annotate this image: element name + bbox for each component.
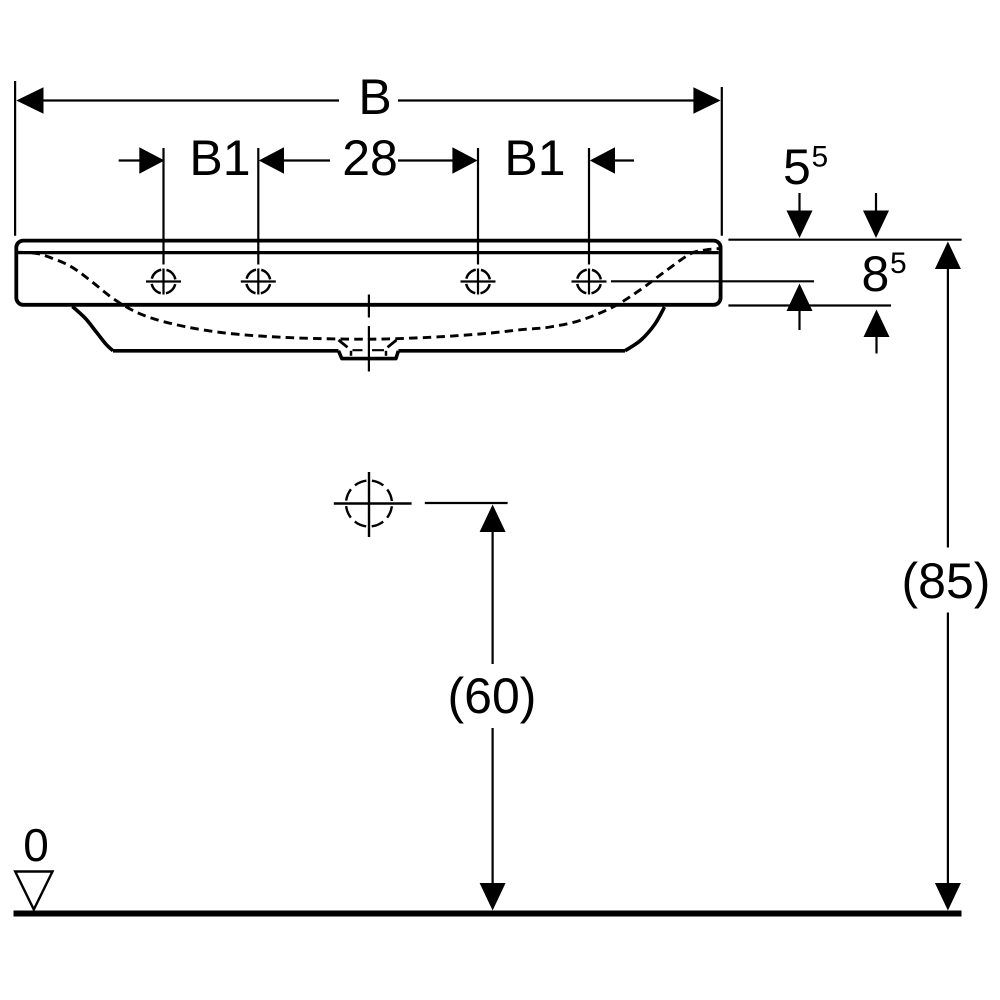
dimension (85) line upper — [947, 266, 949, 548]
faucet hole 1 — [146, 269, 181, 295]
dimension 28 arrow right — [398, 159, 453, 161]
dimension 28 arrow left — [259, 147, 284, 173]
washbasin slab outline — [16, 241, 720, 305]
drain recess — [339, 351, 399, 359]
svg-text:(60): (60) — [448, 668, 537, 724]
bowl underside bottom left segment — [113, 349, 339, 353]
bottom reference line right — [728, 304, 891, 306]
svg-text:B1: B1 — [189, 130, 250, 186]
dimension B arrow right — [693, 87, 720, 113]
dimension B1 right arrow — [590, 147, 615, 173]
dimension (60) line lower — [492, 728, 494, 884]
floor line — [14, 911, 962, 917]
dimension 8.5 down arrow — [875, 193, 877, 211]
washbasin front edge inner line — [18, 251, 719, 254]
bowl underside left curve — [72, 307, 113, 351]
svg-text:5: 5 — [783, 139, 811, 195]
drain centerline — [368, 295, 370, 372]
svg-text:28: 28 — [342, 130, 398, 186]
svg-text:B1: B1 — [504, 130, 565, 186]
inner bowl dashed profile — [18, 249, 719, 340]
dimension (60) line upper — [492, 532, 494, 664]
bowl underside right curve — [625, 307, 665, 351]
faucet hole 3 — [461, 269, 496, 295]
dimension B arrow left — [16, 87, 43, 113]
dimension 5.5 down arrow — [798, 193, 800, 211]
dimension 5.5 up arrow — [787, 284, 813, 312]
extension line hole 1 — [162, 148, 164, 265]
extension line hole 2 — [257, 148, 259, 265]
trap connection crosshair — [334, 472, 412, 537]
dimension B line right segment — [398, 99, 696, 101]
extension line hole 3 — [477, 148, 479, 265]
extension line hole 4 — [588, 148, 590, 265]
dimension (60) up arrow — [480, 505, 506, 533]
top reference line right — [728, 239, 961, 241]
drain dashed taper right — [388, 340, 397, 347]
dimension (85) down arrow — [935, 883, 961, 911]
dimension B line left segment — [40, 99, 339, 101]
svg-text:0: 0 — [23, 819, 49, 871]
bowl underside bottom right segment — [398, 349, 625, 353]
svg-text:(85): (85) — [902, 553, 991, 609]
datum triangle — [15, 872, 52, 910]
dimension (60) reference line — [425, 502, 508, 504]
svg-text:B: B — [358, 69, 391, 125]
svg-text:5: 5 — [890, 247, 907, 280]
drain hole tick right — [385, 351, 388, 356]
dimension B extension line left — [14, 81, 16, 236]
dimension B1 left arrow — [119, 159, 140, 161]
dimension B extension line right — [721, 87, 723, 236]
drain dashed seat line — [353, 349, 385, 351]
dimension (85) line lower — [884, 612, 948, 614]
svg-text:5: 5 — [812, 141, 829, 174]
dimension (60) down arrow — [480, 883, 506, 911]
drain dashed taper left — [339, 340, 348, 347]
drain hole tick left — [350, 351, 353, 356]
faucet hole 4 — [572, 269, 607, 295]
faucet hole 2 — [241, 269, 276, 295]
dimension 8.5 up arrow — [864, 310, 890, 338]
dimension (85) up arrow — [935, 242, 961, 270]
hole center leader line — [611, 280, 814, 282]
svg-text:8: 8 — [862, 246, 890, 302]
